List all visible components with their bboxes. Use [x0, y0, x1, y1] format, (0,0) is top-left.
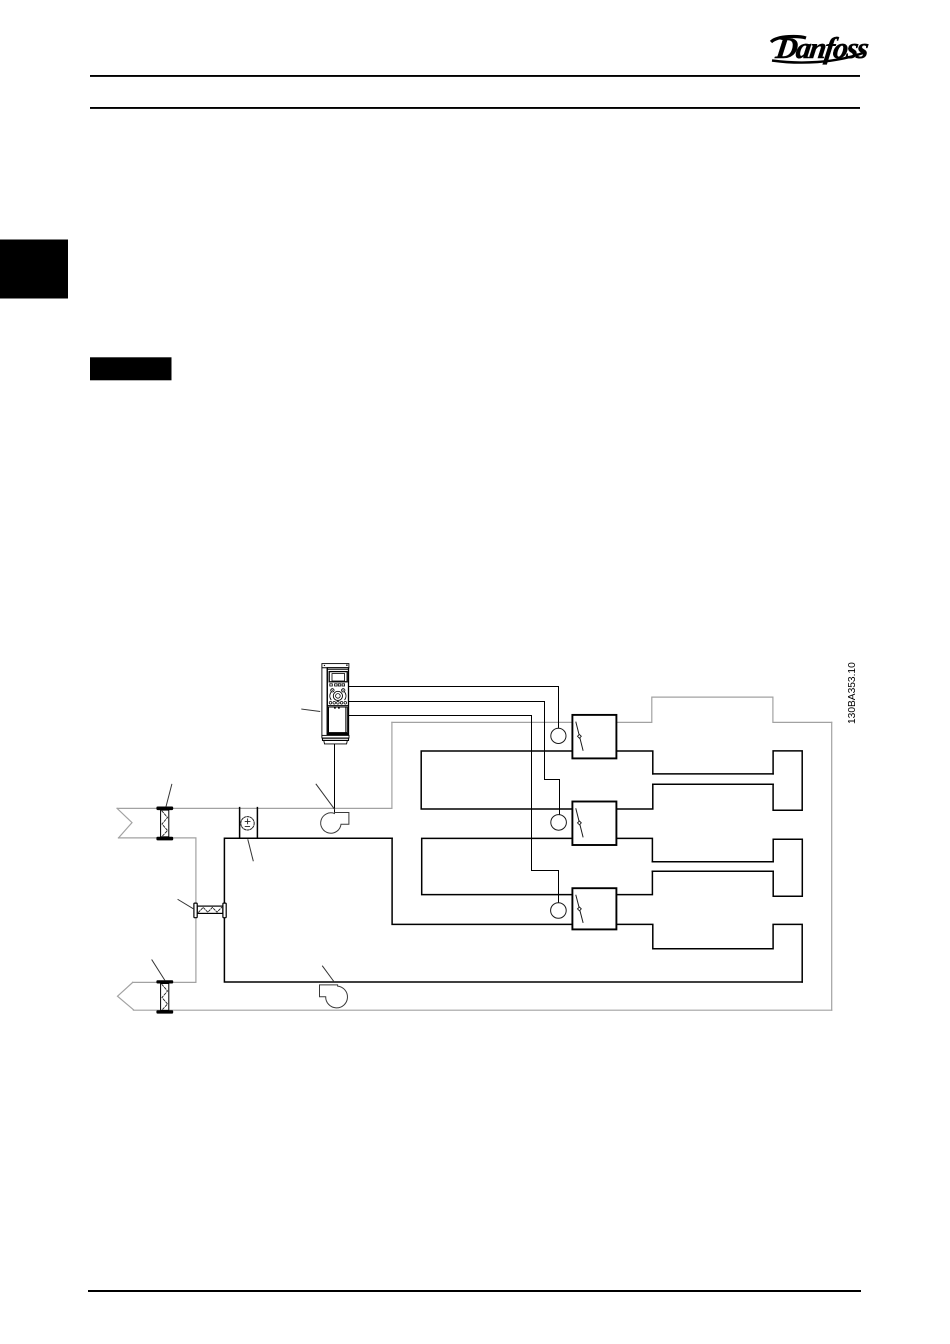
duct branch rect 2 [422, 838, 653, 894]
VLT drive U1 [322, 664, 349, 744]
leader line sensor [248, 840, 253, 861]
damper actuator 1 [551, 728, 566, 743]
heat recovery exchanger [194, 903, 226, 918]
damper actuator 2 [551, 815, 567, 831]
header rule upper [90, 75, 860, 77]
note bar [90, 357, 172, 380]
neck duct zone 2 [652, 862, 773, 872]
leader line drive [302, 709, 320, 711]
control wire 2 [349, 702, 560, 815]
exhaust filter [156, 980, 173, 1013]
gray duct: exhaust arrow [118, 982, 134, 1009]
return fan [320, 985, 348, 1008]
gray duct: right side [831, 722, 833, 1010]
svg-text:130BA353.10: 130BA353.10 [847, 662, 858, 724]
duct run zone 3 [616, 924, 802, 982]
control wire to supply fan [334, 744, 336, 813]
gray duct: exhaust top edge [133, 981, 196, 983]
damper actuator 3 [551, 903, 567, 919]
duct branch rect 1 [421, 751, 653, 809]
zone terminal 1 [773, 751, 802, 810]
Danfoss logo [771, 31, 871, 65]
gray duct: top run with bump [392, 697, 832, 722]
gray duct: supply riser [391, 722, 393, 808]
leader line exhaust filter [152, 960, 165, 980]
footer rule [88, 1290, 861, 1292]
leader line intake filter [166, 784, 172, 806]
header rule lower [90, 107, 860, 109]
neck duct zone 1 [653, 774, 773, 784]
zone terminal 2 [773, 839, 802, 896]
leader line supply fan [316, 784, 334, 809]
pressure sensor [240, 808, 258, 839]
leader line return fan [323, 966, 334, 982]
chapter tab [0, 240, 68, 299]
control wire 3 [349, 716, 559, 903]
supply fan [321, 813, 349, 834]
VAV box 3 [572, 888, 616, 929]
gray duct: fresh air intake arrow [117, 808, 132, 838]
gray duct: intake top edge [117, 807, 392, 809]
VAV box 2 [572, 802, 616, 846]
gray duct: intake bottom edge and recirc drop [119, 838, 196, 982]
intake filter [156, 807, 173, 841]
leader line heat exchanger [178, 900, 194, 910]
VAV box 1 [572, 715, 616, 759]
control wire 1 [349, 687, 559, 729]
AHU box outline [224, 838, 802, 982]
gray duct: bottom run [133, 1009, 831, 1011]
return plenum path [392, 838, 572, 924]
